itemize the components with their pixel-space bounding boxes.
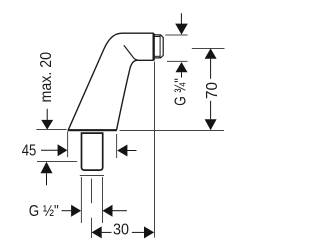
G3/4 bottom extension line: [167, 60, 188, 62]
spout body outline: [68, 33, 153, 130]
70 dim arrow bottom: [210, 101, 212, 119]
max20 lower reference line: [37, 161, 77, 163]
threaded connector G3/4: [153, 35, 163, 58]
45 dim arrow left: [117, 145, 127, 157]
base plane right extension line: [120, 130, 225, 132]
G3/4 dim arrow top: [180, 13, 182, 24]
stub right extension line: [102, 177, 104, 223]
svg-text:G ½": G ½": [29, 203, 59, 220]
G3/4 dim arrow bottom: [176, 62, 188, 72]
inlet stub G1/2: [82, 133, 103, 170]
max20 dim arrow down: [46, 109, 48, 121]
stub left extension line: [80, 177, 82, 223]
45 dim arrow right: [41, 149, 58, 151]
svg-text:max. 20: max. 20: [38, 52, 55, 103]
stub center line lower (30 dim extension): [91, 218, 93, 238]
max20 dim arrow up: [41, 162, 53, 173]
neck right face: [153, 33, 155, 60]
svg-text:G ¾": G ¾": [172, 78, 189, 106]
30 dim arrow left: [92, 226, 102, 238]
svg-text:70: 70: [204, 82, 221, 99]
70 dim arrow top: [205, 48, 217, 58]
G3/4 top extension line: [165, 34, 187, 36]
spout bottom thick edge: [68, 129, 117, 131]
G1/2 dim arrow left: [103, 205, 113, 217]
45 dim left extension line: [67, 131, 69, 157]
washer line below stub: [80, 175, 104, 177]
stub center line upper: [91, 179, 93, 204]
G1/2 dim arrow right: [62, 210, 72, 212]
svg-text:45: 45: [22, 142, 37, 159]
connector thread inner lines: [153, 36, 160, 38]
45 dim right extension line: [116, 134, 118, 158]
outlet axis extension line: [192, 48, 225, 50]
outlet face long extension line: [154, 62, 156, 238]
interior tangent edge: [124, 45, 138, 60]
svg-text:30: 30: [113, 222, 129, 239]
base plane left extension line: [36, 129, 66, 131]
30 dim arrow right: [132, 231, 144, 233]
